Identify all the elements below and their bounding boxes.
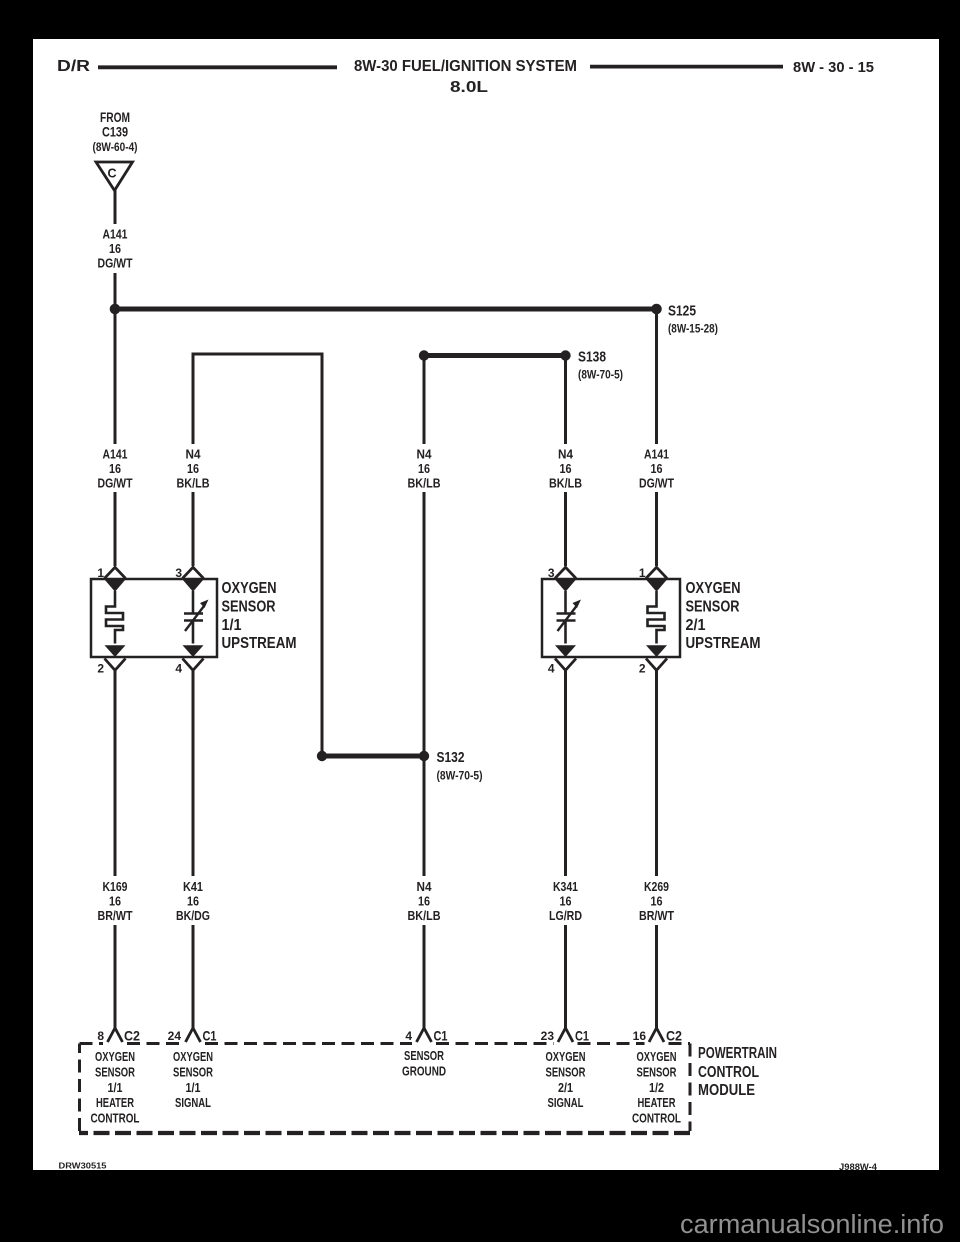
header label D/R	[57, 58, 91, 75]
wire label K169 16 BR/WT	[98, 880, 133, 923]
junction dot S138 right	[560, 350, 570, 360]
svg-text:16: 16	[418, 895, 430, 909]
PCM pin 23 C1 entry	[541, 1028, 590, 1044]
svg-text:UPSTREAM: UPSTREAM	[222, 635, 297, 652]
svg-text:4: 4	[405, 1029, 412, 1043]
wire label K41 16 BK/DG	[176, 880, 210, 923]
PCM text sensor ground	[402, 1049, 446, 1078]
svg-text:SENSOR: SENSOR	[637, 1065, 677, 1079]
svg-text:LG/RD: LG/RD	[549, 909, 582, 923]
svg-text:OXYGEN: OXYGEN	[546, 1050, 586, 1064]
svg-text:2: 2	[97, 662, 104, 676]
PCM pin 8 C2 entry	[97, 1028, 140, 1044]
svg-text:23: 23	[541, 1029, 555, 1043]
svg-text:BK/LB: BK/LB	[549, 477, 582, 491]
node label S138 (8W-70-5)	[578, 350, 623, 382]
sensor 1/1 pin 3	[175, 566, 203, 592]
svg-text:DRW30515: DRW30515	[59, 1162, 108, 1171]
watermark carmanualsonline.info	[680, 1211, 944, 1239]
svg-text:16: 16	[187, 895, 199, 909]
header engine 8.0L	[450, 79, 488, 96]
svg-text:K341: K341	[553, 880, 578, 894]
svg-text:8W-30 FUEL/IGNITION SYSTEM: 8W-30 FUEL/IGNITION SYSTEM	[354, 58, 577, 75]
svg-text:(8W-15-28): (8W-15-28)	[668, 322, 718, 336]
wire label N4 16 BK/LB (bottom)	[408, 880, 441, 923]
header rule right	[590, 65, 783, 69]
svg-text:S132: S132	[437, 750, 465, 766]
PCM dashed box	[79, 1044, 690, 1134]
wire sensor 1/1 pin 2 to PCM (K169)	[114, 671, 117, 1029]
svg-text:2: 2	[639, 662, 646, 676]
wire sensor 2/1 pin 2 to PCM (K269)	[655, 671, 658, 1029]
svg-text:4: 4	[548, 662, 555, 676]
svg-text:BK/DG: BK/DG	[176, 909, 210, 923]
svg-text:A141: A141	[103, 448, 128, 462]
wire S138 down to sensor 2/1 pin 3 (N4)	[564, 356, 567, 567]
header title 8W-30 FUEL/IGNITION SYSTEM	[354, 58, 577, 75]
junction dot S132 right	[419, 751, 429, 761]
svg-text:D/R: D/R	[57, 58, 91, 75]
sensor 2/1 pin 1	[639, 566, 667, 592]
svg-text:16: 16	[651, 462, 663, 476]
svg-text:S138: S138	[578, 350, 606, 366]
svg-text:SIGNAL: SIGNAL	[548, 1096, 584, 1110]
wire label A141 16 DG/WT (left mid)	[98, 448, 133, 491]
footer diagram code right	[839, 1162, 878, 1173]
sensor 2/1 pin 2	[639, 645, 667, 675]
svg-text:N4: N4	[417, 880, 432, 894]
wire label N4 16 BK/LB (center mid)	[408, 448, 441, 491]
wire from C139 to node S125 (A141)	[114, 190, 117, 305]
header page number 8W - 30 - 15	[793, 59, 874, 76]
wire S125 down to sensor 1/1 pin 1 (A141)	[114, 309, 117, 566]
node label S132 (8W-70-5)	[437, 750, 483, 783]
svg-text:2/1: 2/1	[558, 1081, 573, 1095]
svg-text:OXYGEN: OXYGEN	[222, 580, 277, 597]
svg-text:16: 16	[560, 895, 572, 909]
svg-text:BR/WT: BR/WT	[98, 909, 133, 923]
svg-text:GROUND: GROUND	[402, 1064, 446, 1078]
sensor 2/1 text OXYGEN SENSOR 2/1 UPSTREAM	[686, 580, 761, 652]
svg-text:SENSOR: SENSOR	[173, 1065, 213, 1079]
svg-text:BK/LB: BK/LB	[408, 909, 441, 923]
wire label K269 16 BR/WT	[639, 880, 674, 923]
PCM pin 16 C2 entry	[633, 1028, 683, 1044]
svg-text:DG/WT: DG/WT	[98, 257, 133, 271]
svg-text:POWERTRAIN: POWERTRAIN	[698, 1045, 777, 1062]
svg-text:C1: C1	[575, 1028, 589, 1044]
sensor 1/1 heater element	[106, 591, 123, 644]
svg-text:8: 8	[97, 1029, 104, 1043]
svg-text:4: 4	[175, 662, 182, 676]
PCM pin 24 C1 entry	[168, 1028, 217, 1044]
svg-text:C139: C139	[102, 125, 128, 140]
junction dot S125 left	[110, 304, 121, 315]
PCM text oxygen sensor 2/1 signal	[546, 1050, 586, 1110]
svg-text:HEATER: HEATER	[96, 1096, 134, 1110]
sensor 1/1 pin 1	[97, 566, 125, 592]
junction dot S138 left	[419, 350, 429, 360]
svg-text:SENSOR: SENSOR	[546, 1065, 586, 1079]
svg-text:SENSOR: SENSOR	[686, 598, 740, 615]
svg-text:SIGNAL: SIGNAL	[175, 1096, 211, 1110]
header rule left	[98, 65, 337, 69]
splice bus S132 wire	[322, 754, 424, 759]
wire label N4 16 BK/LB (left mid)	[177, 448, 210, 491]
svg-text:N4: N4	[186, 448, 201, 462]
oxygen sensor 2/1 box	[542, 579, 680, 657]
svg-text:24: 24	[168, 1029, 182, 1043]
node label S125 (8W-15-28)	[668, 304, 718, 336]
svg-text:16: 16	[187, 462, 199, 476]
svg-text:1/1: 1/1	[222, 617, 242, 634]
svg-text:OXYGEN: OXYGEN	[637, 1050, 677, 1064]
PCM text oxygen sensor 1/1 signal	[173, 1050, 213, 1110]
svg-text:K269: K269	[644, 880, 669, 894]
svg-text:16: 16	[633, 1029, 647, 1043]
svg-text:FROM: FROM	[100, 110, 130, 125]
junction dot S132 left	[317, 751, 327, 761]
sensor 1/1 text OXYGEN SENSOR 1/1 UPSTREAM	[222, 580, 297, 652]
svg-text:SENSOR: SENSOR	[222, 598, 276, 615]
svg-text:1/2: 1/2	[649, 1081, 664, 1095]
splice bus S138 wire	[424, 353, 566, 358]
svg-text:DG/WT: DG/WT	[639, 477, 674, 491]
svg-text:(8W-60-4): (8W-60-4)	[93, 140, 138, 154]
svg-text:A141: A141	[644, 448, 669, 462]
svg-text:8.0L: 8.0L	[450, 79, 488, 96]
connector C139 label FROM C139 (8W-60-4)	[93, 110, 138, 154]
svg-text:UPSTREAM: UPSTREAM	[686, 635, 761, 652]
svg-text:3: 3	[175, 566, 182, 580]
svg-text:N4: N4	[558, 448, 573, 462]
svg-text:A141: A141	[103, 228, 128, 242]
svg-text:16: 16	[418, 462, 430, 476]
wire label N4 16 BK/LB (right mid)	[549, 448, 582, 491]
connector C139 triangle symbol	[96, 162, 133, 191]
svg-text:S125: S125	[668, 304, 696, 320]
PCM pin 4 C1 entry	[405, 1028, 447, 1044]
bracket wire from sensor 1/1 pin 3 up and over to S132 drop	[192, 354, 324, 752]
svg-text:8W - 30 - 15: 8W - 30 - 15	[793, 59, 874, 76]
wire S132 to PCM sensor ground (N4)	[423, 756, 426, 1029]
PCM title POWERTRAIN CONTROL MODULE	[698, 1045, 777, 1099]
svg-text:C: C	[107, 167, 116, 181]
svg-text:OXYGEN: OXYGEN	[95, 1050, 135, 1064]
svg-text:CONTROL: CONTROL	[632, 1112, 681, 1126]
sensor 1/1 sensing element	[184, 591, 209, 644]
sensor 1/1 pin 2	[97, 645, 125, 675]
svg-text:HEATER: HEATER	[638, 1096, 676, 1110]
svg-text:2/1: 2/1	[686, 617, 706, 634]
svg-text:1: 1	[639, 566, 646, 580]
PCM text oxygen sensor 1/2 heater control	[632, 1050, 681, 1126]
svg-text:K41: K41	[183, 880, 203, 894]
wire label K341 16 LG/RD	[549, 880, 582, 923]
svg-text:OXYGEN: OXYGEN	[173, 1050, 213, 1064]
PCM text oxygen sensor 1/1 heater control	[91, 1050, 140, 1126]
svg-text:CONTROL: CONTROL	[91, 1112, 140, 1126]
svg-text:3: 3	[548, 566, 555, 580]
svg-text:BK/LB: BK/LB	[177, 477, 210, 491]
sensor 2/1 sensing element	[557, 591, 582, 644]
wire sensor 2/1 pin 4 to PCM (K341)	[564, 671, 567, 1029]
svg-text:C1: C1	[203, 1028, 217, 1044]
svg-text:16: 16	[651, 895, 663, 909]
svg-text:16: 16	[560, 462, 572, 476]
svg-text:1: 1	[97, 566, 104, 580]
wire S125 down to sensor 2/1 pin 1 (A141)	[655, 309, 658, 566]
svg-text:K169: K169	[103, 880, 128, 894]
svg-text:SENSOR: SENSOR	[404, 1049, 444, 1063]
sensor 1/1 pin 4	[175, 645, 203, 675]
oxygen sensor 1/1 box	[91, 579, 217, 657]
svg-text:N4: N4	[417, 448, 432, 462]
wire label A141 16 DG/WT (top)	[98, 228, 133, 271]
svg-text:J988W-4: J988W-4	[839, 1162, 878, 1173]
svg-text:16: 16	[109, 242, 121, 256]
wire sensor 1/1 pin 4 to PCM (K41)	[192, 671, 195, 1029]
svg-text:C1: C1	[434, 1028, 448, 1044]
svg-text:C2: C2	[124, 1028, 140, 1044]
svg-text:CONTROL: CONTROL	[698, 1064, 759, 1081]
svg-text:16: 16	[109, 895, 121, 909]
svg-text:MODULE: MODULE	[698, 1082, 755, 1099]
svg-text:1/1: 1/1	[186, 1081, 201, 1095]
svg-text:C2: C2	[666, 1028, 682, 1044]
svg-text:BK/LB: BK/LB	[408, 477, 441, 491]
svg-text:(8W-70-5): (8W-70-5)	[437, 769, 483, 783]
svg-text:BR/WT: BR/WT	[639, 909, 674, 923]
splice bus S125 wire	[115, 307, 657, 312]
sensor 2/1 pin 3	[548, 566, 576, 592]
footer diagram code left	[59, 1162, 108, 1171]
svg-text:SENSOR: SENSOR	[95, 1065, 135, 1079]
sensor 2/1 heater element	[648, 591, 665, 644]
svg-text:OXYGEN: OXYGEN	[686, 580, 741, 597]
wire S138 down to S132 junction (N4)	[423, 356, 426, 753]
svg-text:1/1: 1/1	[108, 1081, 123, 1095]
svg-text:DG/WT: DG/WT	[98, 477, 133, 491]
junction dot S125 right	[651, 304, 662, 315]
wire label A141 16 DG/WT (right mid)	[639, 448, 674, 491]
svg-text:16: 16	[109, 462, 121, 476]
sensor 2/1 pin 4	[548, 645, 576, 675]
svg-text:(8W-70-5): (8W-70-5)	[578, 368, 623, 382]
svg-text:carmanualsonline.info: carmanualsonline.info	[680, 1211, 944, 1239]
